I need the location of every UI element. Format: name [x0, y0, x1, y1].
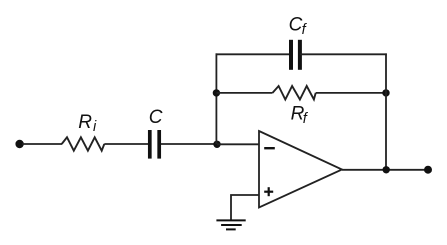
svg-text:f: f	[303, 111, 309, 127]
node A (inverting input node)	[213, 141, 220, 148]
svg-text:i: i	[93, 119, 97, 135]
wire input to Ri	[22, 143, 62, 145]
label C	[149, 107, 163, 128]
wire op-amp non-inverting input to ground riser	[231, 195, 259, 220]
wire right vertical feedback riser	[385, 53, 387, 169]
wire top branch left (to Cf)	[216, 53, 292, 55]
wire Ri to C	[104, 143, 148, 145]
resistor Ri	[62, 137, 105, 150]
output terminal dot	[424, 166, 432, 174]
node C (right feedback junction)	[382, 89, 389, 96]
wire op-amp output	[342, 169, 428, 171]
label Cf	[289, 14, 308, 38]
input terminal dot	[15, 140, 23, 148]
wire Rf branch left	[216, 92, 272, 94]
svg-text:R: R	[78, 112, 92, 133]
label Ri	[78, 112, 97, 135]
wire left vertical feedback riser	[215, 53, 217, 144]
capacitor Cf	[291, 40, 300, 70]
svg-text:C: C	[289, 14, 303, 35]
op-amp non-inverting pin marker (+)	[264, 187, 273, 196]
node D (output junction)	[383, 166, 390, 173]
node B (left feedback junction)	[213, 89, 220, 96]
wire node A to op-amp inverting input	[217, 143, 259, 145]
op-amp inverting pin marker (-)	[264, 147, 275, 149]
wire Rf branch right	[316, 92, 386, 94]
op-amp U1	[259, 131, 342, 208]
svg-text:f: f	[302, 22, 308, 38]
wire C to node A	[161, 143, 217, 145]
resistor Rf	[273, 86, 316, 100]
wire top branch right (Cf to right riser)	[300, 53, 387, 55]
ground	[216, 220, 245, 229]
label Rf	[291, 104, 309, 128]
svg-text:C: C	[149, 107, 163, 128]
capacitor C	[150, 130, 159, 159]
